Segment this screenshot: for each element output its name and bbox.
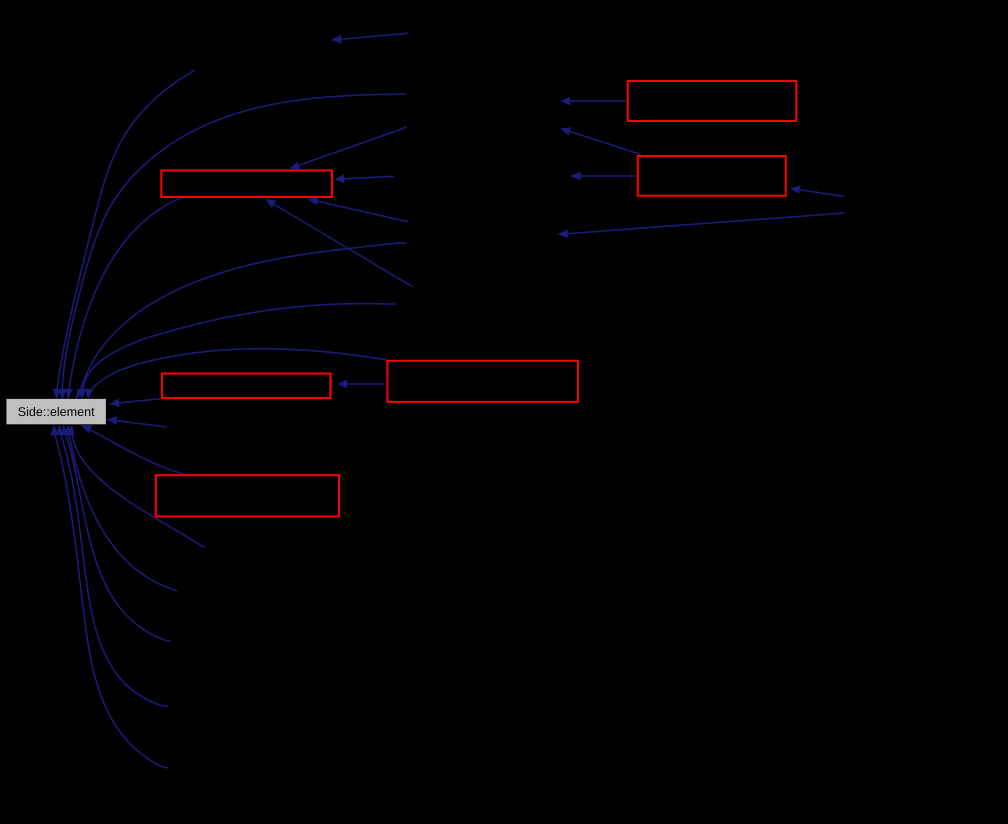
- wire: arrow box D to box E: [338, 383, 386, 385]
- wire: strand S1 to node bottom: [71, 426, 205, 547]
- wire: strand S3 to node bottom: [64, 426, 171, 641]
- wire: edge into box C bottom 1: [309, 199, 409, 222]
- wire: arc delta to node top: [76, 243, 407, 398]
- wire: edge box F to node bottom: [82, 426, 184, 474]
- node box E (red): [162, 374, 331, 399]
- wire: arc alpha to node top: [57, 70, 195, 398]
- node Side::element (current function, grey fill): [6, 399, 106, 424]
- wire: arc beta to node top: [62, 94, 406, 398]
- wire: box A left arrow: [561, 100, 626, 102]
- wire: edge into box C top: [290, 127, 407, 169]
- node box D (red): [387, 361, 578, 402]
- svg-text:Side::element: Side::element: [18, 405, 95, 419]
- wire: box B left arrow: [572, 175, 637, 177]
- wire: arc gamma box C to node top: [69, 198, 187, 399]
- wire: arc epsilon to node top: [82, 304, 395, 399]
- wire: short edge to node right: [108, 419, 168, 427]
- wire: edge T1 top arrow: [332, 33, 409, 40]
- wire: edge box E to node right: [110, 399, 160, 404]
- wire: strand S4 to node bottom: [59, 426, 168, 706]
- wire: box B corner arrow: [561, 129, 641, 155]
- node box B (red): [638, 156, 786, 196]
- wire: long diagonal arrow: [559, 213, 845, 234]
- node box C (red): [161, 171, 332, 198]
- node box F (red): [156, 475, 339, 516]
- wire: edge into box C right: [335, 176, 394, 179]
- wire: strand S2 to node bottom: [68, 426, 178, 591]
- wire: arrow into box B right: [791, 188, 845, 196]
- wire: edge into box C bottom 2: [266, 200, 413, 288]
- node box A (red): [628, 81, 797, 121]
- wire: strand S5 to node bottom: [54, 426, 168, 768]
- wire: arc box D to node top: [88, 349, 386, 399]
